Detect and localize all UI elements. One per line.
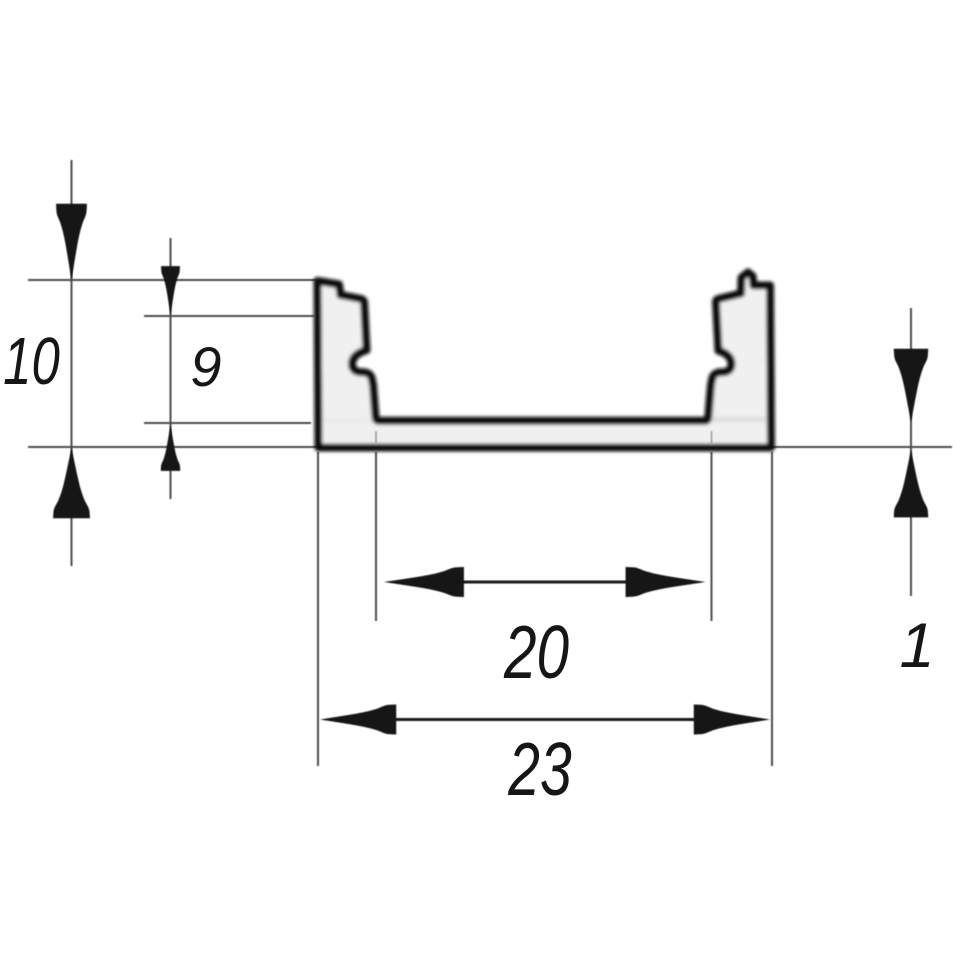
svg-text:9: 9 bbox=[190, 335, 221, 398]
svg-text:1: 1 bbox=[899, 611, 934, 681]
svg-text:23: 23 bbox=[507, 729, 571, 812]
svg-text:20: 20 bbox=[503, 611, 569, 695]
svg-text:10: 10 bbox=[3, 323, 60, 398]
